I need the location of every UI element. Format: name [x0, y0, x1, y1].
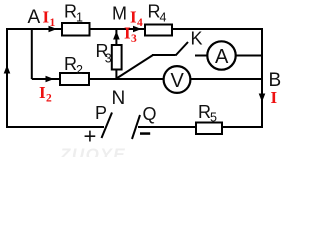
svg-text:N: N — [112, 88, 126, 109]
wire: top row — [6, 28, 262, 30]
wire: R3 branch M to N — [115, 29, 117, 79]
wire: bottom right segment — [138, 126, 263, 128]
arrow I1 on top wire — [49, 26, 58, 33]
resistor R4 — [145, 25, 172, 36]
resistor R2 — [60, 73, 89, 85]
wire: switch K right lead to ammeter and rail — [195, 55, 262, 57]
arrow I down on right rail — [259, 94, 266, 103]
arrow I2 on row 2 — [46, 76, 55, 83]
svg-text:I: I — [271, 88, 278, 107]
arrow up on left rail — [4, 65, 11, 74]
svg-text:1: 1 — [76, 11, 83, 25]
voltmeter V — [164, 66, 191, 93]
battery terminal Q slash — [132, 115, 140, 139]
svg-text:I: I — [43, 8, 50, 27]
svg-text:1: 1 — [50, 17, 56, 29]
svg-text:A: A — [215, 46, 229, 68]
wire: bottom left segment — [6, 126, 104, 128]
switch K lever — [176, 42, 189, 56]
svg-text:4: 4 — [160, 11, 167, 25]
svg-text:K: K — [191, 29, 203, 49]
svg-text:2: 2 — [76, 63, 83, 77]
svg-text:Q: Q — [143, 104, 157, 124]
svg-text:I: I — [39, 83, 46, 102]
svg-text:A: A — [28, 7, 41, 28]
resistor R1 — [62, 23, 90, 36]
svg-text:3: 3 — [131, 33, 137, 45]
svg-text:2: 2 — [46, 93, 52, 105]
svg-text:P: P — [95, 103, 107, 123]
wire: branch at node A down to row 2 — [31, 29, 33, 79]
resistor R5 — [196, 123, 222, 135]
resistor R3 — [112, 45, 122, 70]
svg-text:+: + — [84, 124, 97, 149]
arrow I3 up on R3 branch — [113, 31, 120, 40]
ammeter A — [207, 41, 235, 69]
wire: switch K left lead — [152, 54, 176, 56]
svg-text:3: 3 — [105, 52, 112, 66]
minus sign — [140, 132, 150, 135]
svg-text:V: V — [171, 70, 185, 92]
svg-text:I: I — [130, 8, 137, 27]
svg-text:5: 5 — [210, 111, 217, 125]
wire: row 2 (R2 / V row) — [32, 78, 262, 80]
wire: diagonal from N to switch K — [116, 55, 153, 79]
svg-text:M: M — [112, 4, 127, 24]
arrow I4 on top wire — [133, 26, 142, 33]
battery terminal P slash — [102, 113, 113, 139]
wire: right rail — [261, 28, 263, 128]
wire: left rail — [6, 28, 8, 128]
svg-text:4: 4 — [137, 17, 143, 29]
